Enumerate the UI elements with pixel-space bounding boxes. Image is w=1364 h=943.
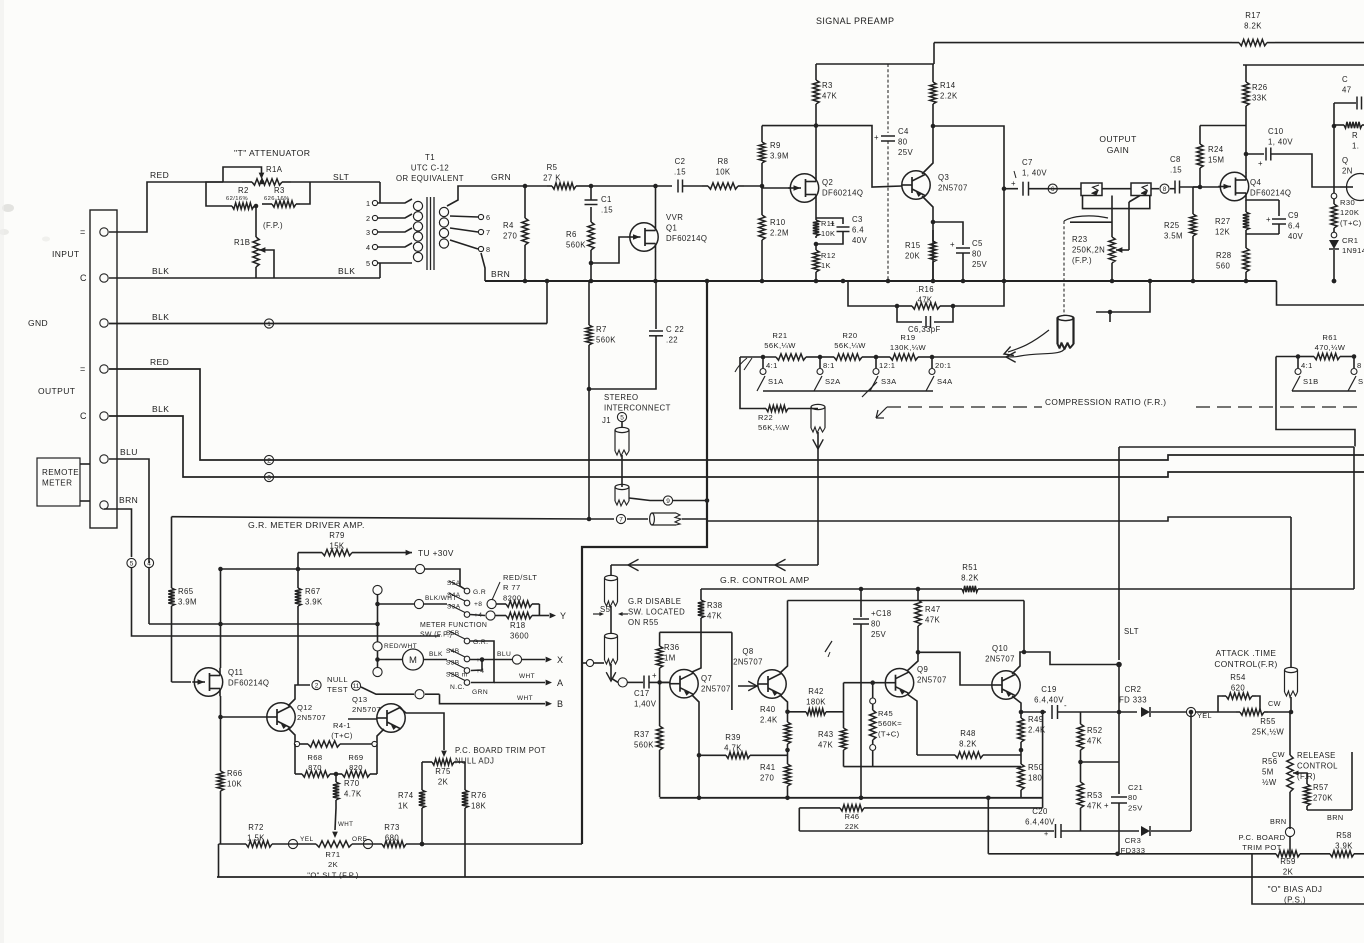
wire S5 gnd (582, 662, 586, 664)
label output C (80, 411, 87, 421)
svg-text:1.: 1. (1352, 141, 1359, 150)
svg-text:25V: 25V (1128, 803, 1143, 812)
junction bus x707 (705, 279, 710, 284)
svg-text:Q12: Q12 (297, 703, 313, 712)
svg-text:R27: R27 (1215, 217, 1231, 226)
switch contact S2B (1351, 369, 1357, 375)
svg-text:R69: R69 (348, 753, 363, 762)
wire C22 bottom (589, 336, 656, 389)
pot output gain B (1131, 183, 1151, 196)
wire CR3 right (1151, 830, 1191, 832)
wire C22 riser (655, 281, 657, 329)
wire T1 pin 3 lead (378, 228, 412, 232)
wire red input (109, 182, 223, 232)
label BRN (119, 495, 138, 505)
label RED out (150, 357, 169, 367)
wire T1 sec bottom (481, 253, 485, 281)
wire top supply line (934, 42, 1232, 44)
label COMPRESSION RATIO (1045, 397, 1166, 407)
svg-text:G.R DISABLE: G.R DISABLE (628, 597, 681, 606)
label R7 560K (596, 325, 616, 344)
svg-text:G.R: G.R (473, 589, 486, 596)
svg-text:R70: R70 (344, 779, 360, 788)
resistor R11 (813, 218, 819, 238)
label 8 b (1357, 361, 1362, 370)
switch arm S2A (814, 376, 822, 391)
remote meter box (37, 458, 80, 506)
svg-text:R5: R5 (547, 163, 558, 172)
resistor R3b preamp (813, 64, 819, 126)
T1 primary pin 1 (372, 200, 377, 205)
resistor R75 (430, 759, 456, 765)
svg-text:R67: R67 (305, 587, 321, 596)
label WHT a (519, 673, 535, 680)
svg-text:R37: R37 (634, 730, 650, 739)
resistor R26 (1243, 65, 1249, 126)
svg-text:C: C (80, 411, 87, 421)
resistor R54 (1222, 693, 1256, 699)
svg-text:8:1: 8:1 (823, 361, 835, 370)
svg-text:R51: R51 (962, 563, 978, 572)
junction fb right (951, 304, 956, 309)
label T1 pin 2 (366, 214, 370, 223)
label S5A m (447, 580, 461, 587)
svg-text:62/16%: 62/16% (226, 196, 248, 202)
svg-text:2K: 2K (328, 860, 338, 869)
wire Q10 collector up (1023, 601, 1025, 653)
svg-text:R2: R2 (238, 186, 249, 195)
label R4 270 (503, 221, 517, 240)
label T1 pin 8 (486, 245, 490, 254)
svg-text:4:1: 4:1 (1301, 361, 1313, 370)
svg-text:2N5707: 2N5707 (297, 713, 326, 722)
wire q13 base (348, 718, 377, 720)
svg-text:2N5707: 2N5707 (352, 705, 381, 714)
label A (557, 678, 563, 688)
svg-text:R75: R75 (435, 767, 451, 776)
svg-text:S2B m: S2B m (446, 672, 468, 679)
resistor R12 (813, 244, 819, 281)
label R74 1K (398, 791, 414, 810)
wire line 569 (221, 568, 416, 570)
wire R11 to C3 top (816, 218, 843, 224)
label C7 1 40V (1022, 158, 1047, 177)
plug ratio wiper (811, 404, 825, 433)
junction ratio 8to1 (818, 355, 823, 360)
arrowhead Y (550, 613, 556, 619)
switch contact S2A (817, 369, 823, 375)
wire Q1 drain up (655, 186, 657, 223)
label input C (80, 273, 87, 283)
wire release drop (1290, 517, 1292, 668)
label +8 s5a (474, 601, 482, 608)
label C10 1 40V (1268, 127, 1293, 146)
label ORE r71 (352, 836, 368, 843)
switch contact S1B (1295, 369, 1301, 375)
label R69 820 (348, 753, 363, 772)
label GRN (491, 172, 511, 182)
wire base line q9 (844, 682, 887, 684)
svg-text:R1A: R1A (266, 165, 283, 174)
resistor R4 (522, 186, 528, 281)
wire J1 drop (621, 455, 623, 487)
label METER FUNCTION SW (420, 622, 487, 639)
node r44 left (294, 741, 299, 746)
svg-text:20:1: 20:1 (935, 361, 951, 370)
label R56 5M halfW (1262, 757, 1278, 787)
wire b box (440, 694, 495, 704)
svg-text:CONTROL: CONTROL (1297, 761, 1338, 770)
wire line 569 b (425, 569, 465, 589)
wire CR2 to yel (1151, 711, 1186, 713)
capacitor C3 (837, 227, 850, 232)
wire Q8 collector (780, 601, 788, 674)
resistor R42 (788, 709, 844, 715)
svg-text:R43: R43 (818, 730, 834, 739)
resistor R36 (656, 632, 662, 682)
svg-text:2K: 2K (438, 777, 449, 786)
junction R47 Q9 (916, 650, 921, 655)
wire meter link (378, 659, 403, 661)
wire meter bottom bus c (352, 843, 382, 845)
svg-text:INTERCONNECT: INTERCONNECT (604, 403, 671, 412)
svg-text:+: + (1011, 179, 1016, 188)
label C7 plus (1011, 179, 1016, 188)
node null mid (415, 690, 424, 699)
label C5 plus (950, 240, 955, 249)
wire blu drop 2 (148, 568, 150, 624)
node R45 top circle (870, 698, 876, 704)
svg-text:3.5M: 3.5M (1164, 231, 1183, 240)
svg-text:Q7: Q7 (701, 674, 712, 683)
svg-text:SIGNAL PREAMP: SIGNAL PREAMP (816, 16, 894, 26)
wire C3 bottom (816, 232, 843, 245)
switch arm S5B low (449, 631, 465, 639)
resistor R15 (930, 230, 936, 281)
resistor R38 (698, 589, 704, 621)
wire feedback right (953, 189, 1004, 306)
svg-text:BLU: BLU (120, 447, 138, 457)
wire R23 wiper (1128, 202, 1130, 250)
label R5 27K (543, 163, 561, 182)
T1 secondary winding (439, 207, 448, 248)
wire interconnect right (707, 517, 1291, 521)
wire pot2 out (1151, 188, 1159, 190)
label BRN release (1270, 817, 1287, 826)
resistor R39 (700, 752, 788, 758)
label REDSLT R77 8200 (503, 573, 537, 602)
svg-text:+: + (1104, 801, 1109, 810)
wire pot1 to pot2 (1102, 188, 1131, 190)
arrowhead gr feed 2 (775, 559, 786, 571)
svg-text:R10: R10 (770, 218, 786, 227)
svg-text:15K: 15K (329, 541, 344, 550)
wire to C17 (627, 681, 643, 683)
svg-text:R52: R52 (1087, 726, 1103, 735)
svg-text:S2A: S2A (825, 377, 841, 386)
svg-text:R 77: R 77 (503, 583, 521, 592)
resistor R46 (799, 805, 1042, 811)
wire bias box top (660, 631, 732, 633)
resistor R20 (820, 354, 876, 360)
label R18 3600 (510, 621, 529, 640)
junction R31 (1332, 124, 1337, 129)
label C10 plus (1258, 159, 1263, 168)
label CR1 1N914 (1342, 236, 1364, 255)
svg-text:R26: R26 (1252, 83, 1268, 92)
label R71 2K 0 SLT (307, 850, 359, 879)
svg-text:R28: R28 (1216, 251, 1232, 260)
resistor R31 (1334, 122, 1364, 128)
label 12:1 (879, 361, 895, 370)
label BLK meter (429, 651, 443, 658)
wire C17 to Q7 (649, 681, 670, 683)
T1 primary pin 2 (372, 215, 377, 220)
label R8 10K (715, 157, 730, 176)
wire junction to Q2 gate (762, 186, 790, 188)
svg-text:25K,½W: 25K,½W (1252, 727, 1285, 736)
wire interconnect to heavy (682, 518, 707, 520)
junction C18 bus (859, 796, 864, 801)
wire bias bus h (988, 853, 1276, 855)
label R3 47K (822, 81, 837, 100)
wire to C5 (933, 222, 963, 245)
resistor R16 (897, 303, 953, 309)
wire bias bus (987, 798, 989, 854)
svg-text:47K: 47K (1087, 801, 1102, 810)
wire gr top line b (980, 588, 1354, 590)
wire ratio wiper drop (817, 449, 819, 565)
arrowhead null adj (441, 751, 447, 757)
plug output interconnect (1058, 315, 1074, 349)
svg-text:S4B: S4B (446, 648, 460, 655)
junction R24 gate (1198, 185, 1203, 190)
wire R23 wiper h (1116, 249, 1129, 251)
junction bus x843 (841, 279, 846, 284)
node meter low (373, 667, 382, 676)
wire R45 stub top (872, 683, 874, 698)
node R30 top (1331, 193, 1337, 199)
T1 secondary pin 7 (478, 229, 483, 234)
wire attenuator lower left (206, 182, 223, 206)
T1 secondary pin 6 (478, 214, 483, 219)
label BRN release right (1327, 813, 1344, 822)
label R72 1.5K (247, 823, 265, 842)
node 3 (264, 472, 273, 481)
svg-text:S5: S5 (600, 605, 611, 614)
arrow S5 a (599, 612, 604, 616)
arrow R23 wiper (1116, 247, 1122, 253)
wire gnd line (109, 323, 547, 325)
svg-text:R22: R22 (758, 413, 773, 422)
svg-text:M: M (409, 655, 417, 666)
junction Q7 emitter bus (697, 796, 702, 801)
svg-text:6.4,40V: 6.4,40V (1025, 817, 1055, 826)
svg-text:2K: 2K (1283, 867, 1294, 876)
svg-text:560K≈: 560K≈ (878, 719, 902, 728)
label R45 560K TC (878, 709, 902, 738)
svg-text:4:1: 4:1 (766, 361, 778, 370)
svg-text:R53: R53 (1087, 791, 1103, 800)
label R9 3.9M (770, 141, 789, 160)
label RED wire (150, 170, 169, 180)
junction J1 heavy (705, 498, 710, 503)
label S5 (600, 605, 611, 614)
label C21 pol (1104, 801, 1109, 810)
svg-text:47K: 47K (707, 611, 722, 620)
diode CR1 (1329, 240, 1339, 249)
svg-text:CW: CW (1268, 699, 1281, 708)
wire R18 to Y (536, 615, 549, 617)
label R55 25K half W (1252, 717, 1285, 736)
svg-text:R: R (1352, 131, 1358, 140)
resistor R27 (1243, 205, 1249, 234)
switch contact S1A (760, 369, 766, 375)
junction C18 top (859, 587, 864, 592)
capacitor C6 (926, 316, 931, 328)
wire CR1 down (1333, 250, 1335, 281)
wire attenuator lower right (300, 182, 310, 204)
svg-text:4: 4 (147, 560, 151, 567)
wire S5 drop2 (610, 614, 612, 634)
wire plug to ratio squiggle (1006, 348, 1065, 357)
label CR2 FD333 (1119, 685, 1147, 704)
svg-text:80: 80 (972, 249, 982, 258)
wire S1B tap (1297, 357, 1299, 369)
svg-text:BLK: BLK (152, 312, 169, 322)
junction C7 node (1002, 186, 1007, 191)
label wht r71 (338, 821, 353, 828)
label R67 3.9K (305, 587, 323, 606)
svg-text:S3B: S3B (446, 660, 460, 667)
resistor R19 (876, 354, 932, 360)
wire T1 pin 5 lead (378, 262, 412, 264)
svg-text:870: 870 (308, 763, 322, 772)
label S4B low (446, 648, 460, 655)
resistor R30 (1331, 199, 1337, 232)
svg-text:R79: R79 (329, 531, 345, 540)
svg-text:8.2K: 8.2K (959, 739, 977, 748)
svg-text:80: 80 (898, 137, 908, 146)
svg-text:R3: R3 (274, 186, 285, 195)
junction ratio 20to1 (930, 355, 935, 360)
svg-text:C20: C20 (1032, 807, 1048, 816)
svg-text:BLK: BLK (429, 651, 443, 658)
wire line 624 (149, 623, 378, 625)
svg-text:R4-1: R4-1 (333, 721, 351, 730)
switch arm S3A (870, 376, 878, 391)
svg-text:C17: C17 (634, 689, 650, 698)
wire q12 emitter (288, 728, 295, 744)
node 1 gnd (264, 319, 273, 328)
svg-text:560K: 560K (596, 335, 616, 344)
wire R24 top (1200, 125, 1246, 127)
svg-text:.15: .15 (601, 205, 613, 214)
svg-text:2.4K: 2.4K (760, 715, 778, 724)
wire Q7 emitter (692, 695, 699, 798)
label R73 680 (384, 823, 400, 842)
wire R26 branch line (1243, 64, 1364, 66)
capacitor C2 (678, 180, 683, 193)
FET Q11 (192, 668, 222, 696)
switch contact S5A m (464, 588, 470, 594)
wire slt to C21 (1118, 665, 1120, 795)
svg-text:METER: METER (42, 479, 72, 488)
svg-text:R14: R14 (940, 81, 956, 90)
wire preamp top rail (762, 125, 816, 127)
label C1 .15 (601, 195, 613, 214)
wire R56 wiper (1293, 773, 1307, 781)
label T1 pin 6 (486, 213, 490, 222)
svg-text:5M: 5M (1262, 767, 1274, 776)
svg-text:1.5K: 1.5K (247, 833, 265, 842)
svg-text:=: = (80, 364, 86, 374)
resistor R14 (930, 64, 936, 126)
wire x arrow (522, 659, 545, 661)
label YEL attack (1197, 711, 1212, 720)
svg-text:+C18: +C18 (871, 609, 891, 618)
wire T1 pin6 lead (450, 216, 478, 217)
resistor R47 (915, 589, 921, 652)
wire pot1 bottom loop (1083, 196, 1150, 209)
label Q4 DF60214Q (1250, 178, 1291, 197)
wire q12 base (221, 716, 268, 718)
wire ratio left branch (740, 357, 763, 409)
node r18 in (486, 611, 495, 620)
wire R43 bottom line (844, 766, 1022, 768)
switch arm S4A m (449, 593, 465, 601)
switch contact S3A (873, 369, 879, 375)
wire R22 to plug (790, 408, 818, 410)
svg-text:C1: C1 (601, 195, 612, 204)
junction R4 top (523, 184, 528, 189)
plug attack pot (1285, 667, 1298, 697)
label C7 tick (1014, 171, 1016, 178)
wire Q3 emitter (922, 196, 933, 222)
svg-text:R30: R30 (1340, 198, 1355, 207)
label YEL r71 (300, 836, 314, 843)
wire T1 sec top (447, 186, 485, 206)
svg-text:+8: +8 (474, 601, 482, 608)
wire R43 riser (843, 683, 845, 712)
node pot out (1160, 184, 1169, 193)
label C3 plus (830, 219, 835, 228)
resistor R41 gr (784, 750, 790, 797)
label R49 2.4K (1028, 715, 1046, 734)
label Q3 2N5707 (938, 173, 968, 192)
wire slt drop (1118, 447, 1120, 660)
junction feedback bus (1002, 279, 1007, 284)
resistor R5 (547, 183, 591, 189)
label C6 33pF (908, 325, 941, 334)
resistor R44 TC (300, 741, 372, 747)
svg-text:Q3: Q3 (938, 173, 949, 182)
wire R46 left drop (798, 808, 800, 831)
junction CR2 slt (1117, 710, 1122, 715)
diode CR3 (1141, 826, 1150, 836)
svg-text:47K: 47K (1087, 736, 1102, 745)
svg-text:VVR: VVR (666, 213, 683, 222)
wire release to bias (1289, 836, 1291, 854)
svg-text:R66: R66 (227, 769, 243, 778)
wire top supply riser (933, 43, 935, 64)
svg-text:R41: R41 (760, 763, 776, 772)
svg-text:P.C. BOARD: P.C. BOARD (1239, 833, 1286, 842)
label R50 180 (1028, 763, 1044, 782)
terminal remote brn (100, 501, 108, 509)
label C9 plus (1266, 215, 1271, 224)
arrowhead annotation (1004, 346, 1014, 355)
